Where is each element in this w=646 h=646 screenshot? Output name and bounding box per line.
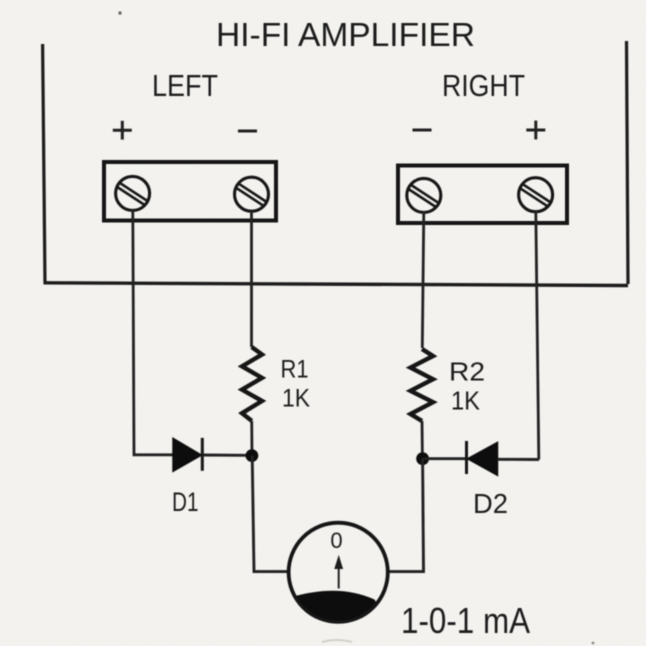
- svg-text:0: 0: [330, 528, 342, 553]
- wire node A down to meter left: [252, 456, 289, 572]
- wire left+ terminal down to D1 anode: [133, 210, 173, 455]
- amplifier enclosure left edge: [43, 44, 45, 284]
- scan speck bottom right: [592, 642, 595, 645]
- node B junction dot: [416, 452, 429, 465]
- svg-text:R2: R2: [449, 357, 485, 387]
- svg-text:HI-FI AMPLIFIER: HI-FI AMPLIFIER: [216, 16, 475, 53]
- resistor R1: [242, 347, 262, 421]
- wire node B down to meter right: [388, 459, 424, 572]
- wire left- terminal down to R1: [250, 211, 253, 347]
- svg-text:RIGHT: RIGHT: [442, 68, 525, 103]
- svg-text:LEFT: LEFT: [152, 68, 218, 103]
- screw terminal left +: [116, 176, 150, 210]
- polarity + (right channel): [526, 121, 545, 140]
- wire right+ terminal down to D2 cathode side: [536, 211, 539, 460]
- terminal strip RIGHT: [398, 166, 567, 224]
- scan speck top: [118, 11, 121, 14]
- diode D2: [423, 441, 539, 475]
- amplifier enclosure right edge: [627, 41, 629, 284]
- screw terminal right -: [407, 178, 441, 212]
- svg-text:D2: D2: [473, 488, 508, 519]
- svg-text:D1: D1: [172, 487, 199, 517]
- meter M1 body: [289, 523, 388, 622]
- amplifier enclosure bottom edge: [44, 283, 629, 286]
- wire right- terminal down to R2: [422, 211, 424, 348]
- polarity - (left channel): [238, 130, 257, 133]
- polarity - (right channel): [413, 129, 432, 132]
- screw terminal right +: [519, 178, 553, 212]
- node A junction dot: [246, 449, 259, 462]
- meter needle: [334, 555, 343, 589]
- svg-text:1K: 1K: [451, 386, 481, 416]
- screw terminal left -: [235, 177, 269, 211]
- svg-text:R1: R1: [281, 356, 309, 384]
- polarity + (left channel): [113, 121, 132, 140]
- terminal strip LEFT: [104, 162, 276, 221]
- svg-text:1-0-1 mA: 1-0-1 mA: [401, 600, 530, 641]
- resistor R2: [411, 349, 434, 421]
- svg-text:1K: 1K: [282, 385, 310, 413]
- wire R1 bottom to node A: [250, 421, 253, 456]
- scan smudge bottom center: [322, 640, 352, 642]
- wire R2 bottom to node B: [421, 421, 424, 459]
- diode D1: [173, 438, 246, 471]
